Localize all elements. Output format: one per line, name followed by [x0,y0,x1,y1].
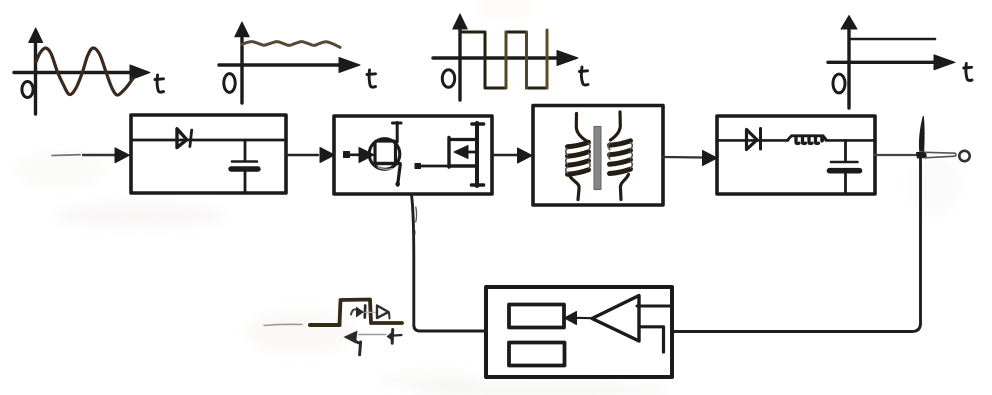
label t (W3) [580,67,589,85]
wire: Q2 gate lead [415,164,449,169]
arrowhead into switching block [320,148,335,163]
block B1: input rectifier box [131,115,286,193]
inductor L1 [788,136,827,144]
label 0 (W3) [442,70,454,88]
arrowhead into output filter block [703,151,718,166]
waveform W2 axes (rectified DC with ripple) [219,22,360,103]
arrowhead Q2 source arrow [454,146,468,159]
wire: U1 upper supply lead [637,305,672,308]
square wave curve [460,32,547,88]
wire: B4 internal bus left [717,139,788,142]
wire: B2 to B3 [492,154,517,156]
glyph: small arrow a on pulse [351,306,365,318]
feedback tap brush stroke [919,116,925,152]
label 0 (W2) [224,74,235,93]
square wave last edge [546,30,549,88]
reference block rect A [509,305,564,328]
label t (W2) [367,70,376,87]
wire: B1 to B2 [286,154,318,156]
wire: U1 input L lead [639,327,664,352]
arrowhead U1 output into rect A [565,312,577,325]
node: output junction blob [916,152,927,159]
wire: U1 output lead [576,317,592,320]
capacitor C2 [830,140,860,194]
waveform W3 axes (switched square wave) [433,14,578,100]
label 0 (W4) [833,74,845,93]
wire: ink blob detail [413,228,415,237]
glyph: small arrow d (right stop) [387,330,402,344]
diode D1 [177,129,192,148]
pulse waveform (control pulse) [340,300,403,326]
wire: B1 internal bus [131,139,286,142]
block B4: output filter box [717,116,875,194]
block B2: switching stage box [334,116,492,194]
waveform W4 axes (DC output) [828,16,955,109]
capacitor C1 [231,140,258,193]
transformer T1 primary winding [566,114,590,200]
square wave rising edges [506,32,527,88]
wire: doubled pen stroke detail [415,207,418,222]
reference block rect B [509,343,565,366]
glyph: small arrow c (left) [344,331,361,355]
wire: B2 down to B5 [412,195,487,331]
transistor Q2 (MOSFET) [449,123,484,186]
output terminal circle [959,151,969,161]
wire: input lead-in [52,154,116,157]
wire: output pen stroke [925,152,956,158]
wire: B2 input stub [344,152,363,158]
block B5: control/feedback box [486,287,672,377]
transformer T1 core [594,127,601,190]
glyph: thin link lower [359,334,387,336]
block B3: transformer box [533,106,663,206]
op-amp U1 (comparator triangle) [592,296,639,342]
wire: B3 to B4 [663,156,703,159]
transformer T1 secondary winding [608,112,632,200]
arrowhead into transformer block [518,148,533,163]
label t (W1) [155,75,164,92]
pulse annotation: lead-in sketchy line [264,324,302,325]
waveform W1 axes (input sine) [14,28,150,114]
label t (W4) [964,64,972,81]
sine curve (AC input) [36,48,133,95]
wire: B4 internal bus right [826,139,875,142]
arrowhead at transistor Q1 base [359,148,374,163]
pulse annotation: dark lead line [310,323,340,327]
diode D2 [747,129,761,150]
glyph: thin link upper [365,311,376,313]
transistor Q1 (encircled) [369,123,401,187]
wire: output [875,154,921,156]
ripple curve [242,42,340,48]
label 0 (W1) [22,82,33,98]
wire: feedback down right side [674,158,921,332]
DC level line [851,38,935,41]
glyph: small hollow arrow b [377,306,390,319]
arrowhead into rectifier block [115,148,130,163]
